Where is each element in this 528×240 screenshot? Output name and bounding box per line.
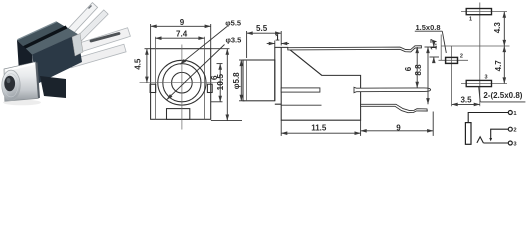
- dimension 6 side: [416, 47, 418, 88]
- schematic wire terminal 3: [483, 142, 508, 144]
- front view inner face line right: [204, 37, 206, 120]
- side view barrel inner line: [246, 60, 248, 101]
- photo: body left face: [17, 40, 35, 85]
- svg-text:8.8: 8.8: [414, 64, 423, 76]
- dimension 11.5: [281, 120, 360, 136]
- dimension 7.4: [155, 37, 204, 39]
- front view bezel circle: [158, 60, 206, 105]
- dimension 4.7: [503, 46, 505, 84]
- photo: barrel cylinder: [4, 62, 39, 101]
- footprint pad 2 center lines: [439, 46, 469, 106]
- svg-text:4.5: 4.5: [134, 58, 143, 70]
- footprint reference v line: [440, 35, 442, 61]
- footprint pad 1 center line: [461, 11, 507, 13]
- front view circle 5.5: [163, 64, 201, 102]
- schematic tip spring chevron: [477, 137, 484, 143]
- svg-text:φ3.5: φ3.5: [226, 36, 242, 45]
- svg-text:4.3: 4.3: [493, 22, 502, 34]
- side view group: [243, 47, 361, 120]
- svg-text:10.5: 10.5: [215, 74, 225, 91]
- svg-text:7.4: 7.4: [176, 29, 188, 38]
- footprint pads center line: [479, 3, 481, 107]
- footprint pad 3: [466, 80, 491, 86]
- footprint reference h line: [441, 45, 509, 47]
- dimension 8.8: [427, 47, 429, 104]
- dimension 6 front: [211, 64, 223, 102]
- svg-text:4.7: 4.7: [494, 60, 503, 72]
- front view circle 3.5: [172, 72, 193, 93]
- schematic terminal circle 3: [508, 141, 512, 145]
- dimension phi5.8: [239, 60, 245, 101]
- dimension 10.5: [211, 49, 242, 121]
- schematic terminal circle 2: [508, 127, 512, 131]
- svg-text:6: 6: [404, 66, 413, 71]
- photo: lower flat pin strip B: [69, 44, 126, 68]
- photo: barrel end cap: [2, 70, 20, 100]
- photo: body groove: [22, 27, 67, 49]
- schematic wire terminal 2 with switch arrow: [491, 129, 509, 138]
- side view bottom pin: [361, 104, 428, 112]
- dimension 9: [151, 24, 211, 49]
- front view right tab: [207, 84, 212, 92]
- front view bottom notch: [167, 109, 190, 120]
- dimension 1.7: [425, 41, 440, 63]
- schematic terminal circle 1: [508, 111, 512, 115]
- front view left tab: [150, 84, 156, 92]
- svg-text:11.5: 11.5: [311, 124, 327, 133]
- front view center line horizontal: [140, 82, 223, 84]
- photo: top narrow pin: [64, 3, 97, 38]
- photo: flat sleeve pin strip A: [71, 28, 131, 55]
- footprint pad 1: [466, 9, 491, 15]
- svg-text:2: 2: [513, 128, 516, 134]
- svg-text:2: 2: [460, 53, 463, 59]
- dimension 3.5: [452, 103, 480, 105]
- front view body rectangle: [151, 49, 211, 120]
- svg-text:9: 9: [396, 123, 401, 132]
- side view body outline: [281, 47, 360, 120]
- schematic wire terminal 1: [468, 113, 508, 123]
- photo: second narrow pin: [76, 10, 108, 42]
- photo: body right face: [32, 34, 82, 84]
- dimension 9 side: [361, 112, 434, 136]
- side view middle pin external: [354, 87, 431, 92]
- svg-text:1: 1: [469, 16, 472, 22]
- svg-text:3: 3: [484, 75, 487, 81]
- footprint pad 2: [446, 57, 458, 63]
- schematic plug body: [465, 123, 471, 145]
- side view top pin: [288, 46, 422, 52]
- svg-text:φ5.8: φ5.8: [232, 72, 241, 89]
- footprint pad 3 center line: [461, 83, 507, 85]
- photo: body lower chunk: [40, 76, 66, 98]
- svg-text:1: 1: [275, 33, 280, 42]
- svg-text:2-(2.5x0.8): 2-(2.5x0.8): [483, 91, 522, 100]
- svg-text:1.7: 1.7: [430, 38, 439, 50]
- dimension 4.3: [503, 12, 505, 46]
- front view inner face line left: [154, 37, 156, 120]
- front view group: [140, 37, 223, 130]
- svg-text:1.5x0.8: 1.5x0.8: [415, 23, 440, 32]
- svg-text:3.5: 3.5: [460, 96, 472, 105]
- photo: body top face: [17, 22, 78, 55]
- photo: metal clip on body edge: [72, 34, 83, 57]
- photo: barrel shadow: [3, 100, 41, 106]
- photo: barrel hole: [4, 76, 15, 92]
- svg-text:5.5: 5.5: [256, 24, 268, 33]
- side view bottom contact internal: [281, 104, 321, 106]
- dimension 4.5: [145, 49, 151, 83]
- side view front plate: [275, 47, 281, 104]
- dimension 1: [267, 41, 289, 48]
- dimension 5.5 side: [247, 31, 282, 58]
- front view center line vertical: [181, 45, 183, 130]
- side view barrel: [243, 60, 275, 101]
- svg-text:9: 9: [180, 18, 185, 27]
- side view middle contact internal: [281, 88, 320, 92]
- svg-text:φ5.5: φ5.5: [225, 18, 241, 27]
